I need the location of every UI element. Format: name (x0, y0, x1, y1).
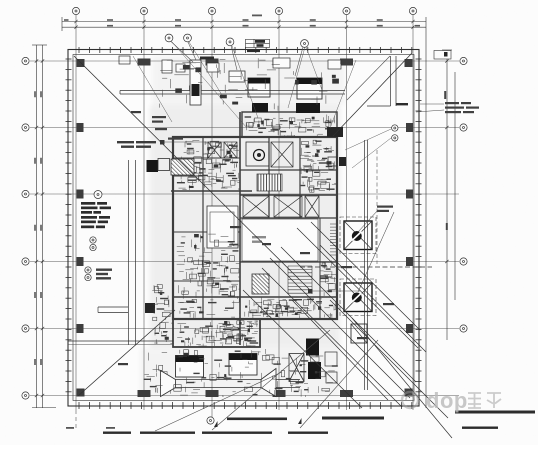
interior axis bubble (94, 191, 102, 199)
AHU room left (207, 206, 238, 248)
fan circle upper (352, 231, 362, 241)
left dimension figures (34, 91, 42, 365)
stair mid treads (288, 266, 312, 294)
left horizontal duct stub (98, 307, 128, 313)
diagonal leader TR (333, 53, 412, 136)
bottom note text row 1 (227, 411, 535, 421)
upper-left label text (117, 141, 156, 148)
diagonal leader TR2 (347, 56, 390, 100)
right axis bubbles (460, 57, 467, 64)
leader bubbles left pair B (85, 267, 91, 273)
horizontal grid axes (30, 61, 459, 396)
mid top extra text (252, 15, 262, 17)
duct risers beside core right (365, 140, 368, 390)
diffuser trapezoid left (161, 371, 176, 397)
right dimension figures (444, 91, 446, 99)
top axis bubbles (72, 7, 79, 14)
building outer wall (68, 50, 419, 407)
core upper machine block walls (171, 112, 337, 347)
VAV box on left duct (147, 160, 159, 172)
watermark CJK blocks (468, 393, 501, 408)
fan circle lower (352, 293, 362, 303)
AHU discharge bar 1 (252, 103, 268, 112)
stair lower hatched (252, 274, 269, 294)
mullion ticks top wall (79, 47, 412, 53)
supply duct run horizontal (120, 91, 345, 95)
TR duct riser (367, 56, 396, 106)
diagonal node TL (160, 140, 165, 145)
AHU unit top 2 (297, 78, 322, 99)
dashed riser line right band (376, 150, 378, 264)
bottom-right small boxes (325, 352, 337, 383)
diagonal leader BL (78, 310, 175, 396)
fan pad labels (377, 206, 393, 213)
small label on top wall (200, 57, 214, 60)
core clutter upper extension (247, 115, 336, 137)
bottom AHU 1 (176, 356, 204, 378)
scale triangle marks (214, 418, 302, 427)
diagonal fan BR (243, 222, 452, 438)
node leader BR (312, 290, 360, 292)
long annotation hairlines top half (133, 42, 356, 128)
mullion ticks bottom wall (79, 402, 412, 409)
top dimension figures (64, 19, 420, 26)
core clutter left-mid rooms (177, 234, 240, 318)
duct fitting box (229, 71, 245, 82)
node leader TL (164, 141, 228, 143)
core clutter lower band (245, 297, 336, 318)
watermark logo ring (402, 392, 418, 408)
left axis bubbles (22, 57, 29, 64)
diagonal duct leader TL (74, 56, 311, 291)
bottom AHU 2 (229, 354, 257, 376)
lift lobby (242, 219, 318, 261)
left bubble text rows (96, 269, 112, 280)
fan pad upper dashed boundary (340, 217, 376, 254)
stair treads core right edge (330, 224, 337, 255)
top dimension lines (62, 17, 426, 31)
smoke fan room annotation block (81, 202, 111, 228)
bottom band clutter (145, 349, 335, 397)
right side annotation text (445, 102, 479, 113)
leaders to bottom notes (155, 330, 378, 431)
small elevator boxes top-left of core (208, 142, 237, 158)
mullion ticks left wall (66, 59, 72, 392)
fan room circle unit (246, 142, 269, 166)
small label top right duct (396, 103, 408, 105)
scan tone veil core (150, 105, 340, 348)
fan pad lower dashed boundary (340, 279, 376, 316)
extra top band white boxes (162, 58, 341, 73)
bottom duct main (160, 380, 300, 388)
top band clutter (159, 58, 340, 110)
AHU unit top 1 (248, 78, 270, 97)
lift shaft X upper (271, 142, 293, 167)
left duct riser vertical (129, 160, 136, 345)
VAV dark boxes right of core top (327, 127, 343, 137)
fan pad leaders (358, 210, 394, 292)
right dimension lines (426, 31, 455, 408)
fan pad upper (344, 221, 372, 250)
AHU discharge bar 2 (296, 103, 320, 113)
scan tone veil bottom band (140, 348, 340, 398)
left dimension lines (32, 45, 56, 408)
box left of right axis bubble (434, 51, 451, 60)
small equipment upper-left wall (119, 56, 130, 64)
core clutter right of lobby (320, 261, 336, 297)
bottom note text row 2 (66, 427, 498, 434)
stair flight upper (257, 174, 282, 191)
leaders from top bubbles (171, 42, 303, 77)
labels on BR diagonals (262, 243, 394, 339)
core clutter right block (300, 145, 336, 192)
bottom axis bubble (207, 417, 214, 424)
building inner wall line (73, 55, 414, 401)
perimeter columns (77, 59, 414, 398)
labels left of core top (152, 116, 167, 130)
leader bubbles left pair A (90, 237, 96, 243)
mullion ticks right wall (416, 59, 422, 392)
top legend table (246, 39, 270, 47)
text below legend table (247, 50, 260, 52)
canopy line bottom-left (68, 340, 173, 342)
right mid leader bubbles (392, 125, 398, 131)
lift shafts X middle row (243, 196, 319, 217)
bottom equipment boxes right (289, 354, 304, 382)
label on BL diagonal (118, 363, 128, 365)
duct elbow dark left (171, 159, 194, 175)
scan tone veil top band (152, 56, 345, 105)
box right of core bottom (351, 324, 367, 343)
diffuser trapezoid right (261, 369, 276, 397)
label on TL diagonal (230, 226, 241, 228)
left core strip lower rooms (152, 285, 174, 344)
core clutter upper-left rooms (177, 141, 240, 190)
riser duct left (190, 60, 201, 105)
fan pad lower (344, 283, 372, 312)
dark box on left duct (145, 303, 155, 313)
core clutter lower-left block (177, 320, 258, 346)
dashed smoke zone line (300, 266, 432, 268)
vertical grid axes (76, 15, 413, 431)
right bubble leaders (345, 129, 391, 168)
top detail bubbles (165, 34, 173, 42)
